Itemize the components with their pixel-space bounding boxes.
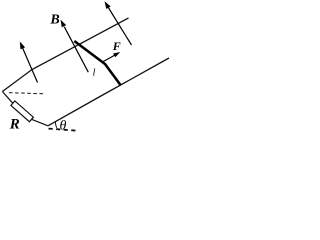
svg-text:l: l <box>93 68 96 79</box>
svg-text:F: F <box>112 39 121 53</box>
svg-text:B: B <box>49 13 59 28</box>
force arrow F (up the incline) <box>102 52 121 63</box>
dashed horizontal base line at angle vertex <box>49 129 77 131</box>
conducting bar l <box>74 41 120 85</box>
rail: incline upper-left edge <box>2 18 128 92</box>
wire: corner node to resistor <box>2 92 13 104</box>
magnetic field arrow (left) <box>20 42 38 83</box>
resistor R <box>11 101 34 122</box>
svg-text:R: R <box>9 117 20 133</box>
wire: resistor to angle vertex <box>31 119 48 126</box>
svg-text:θ: θ <box>60 119 67 132</box>
angle theta arc <box>55 122 56 128</box>
dashed line at upper-left corner node <box>9 93 43 94</box>
magnetic field arrow (right) <box>105 1 132 45</box>
magnetic field arrow (middle, labeled B) <box>61 20 89 73</box>
rail: incline lower edge (hypotenuse through vertex) <box>48 58 169 126</box>
